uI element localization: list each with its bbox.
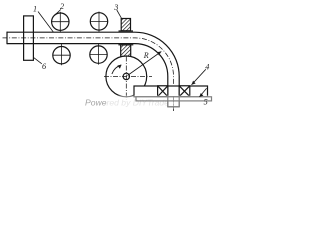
leader for label 5: [199, 88, 206, 97]
leader for label 6: [33, 57, 42, 64]
leader for label 2: [54, 10, 61, 16]
tube 1 horizontal section top edge: [7, 32, 179, 107]
svg-text:Powered by DIYTrade: Powered by DIYTrade: [85, 97, 169, 107]
svg-text:4: 4: [205, 62, 209, 71]
tube bottom end cap: [167, 106, 179, 108]
roller bottom-left circle: [53, 44, 71, 66]
roller 2 top-left circle: [51, 12, 69, 32]
leader for label 4: [192, 69, 206, 85]
tube 1 horizontal section bottom edge: [7, 44, 168, 107]
tube left end cap: [6, 32, 8, 45]
vertical tube through plate redraw: [167, 85, 179, 111]
svg-text:6: 6: [42, 62, 47, 71]
watermark white wash band: [96, 95, 215, 109]
wheel hub small circle: [123, 73, 129, 79]
svg-text:1: 1: [33, 5, 37, 14]
clamp die 3 bottom hatched block: [118, 45, 133, 57]
roller bottom-right circle: [90, 44, 108, 65]
clamp guide 6 (vertical rectangle): [24, 16, 34, 60]
svg-text:3: 3: [113, 3, 118, 12]
svg-text:5: 5: [204, 97, 208, 106]
bending wheel: [106, 56, 147, 97]
wheel horizontal centerline: [104, 75, 152, 77]
svg-text:2: 2: [60, 2, 64, 11]
carriage block (clamp slide): [134, 86, 208, 97]
wheel vertical centerline: [125, 57, 127, 100]
clamp die 4 left x-box: [158, 86, 168, 97]
radius R leader line: [128, 52, 162, 76]
leader for label 1: [38, 12, 54, 33]
base plate 5: [136, 97, 212, 101]
roller top-right circle: [90, 12, 108, 33]
leader for label 3: [117, 10, 122, 19]
clamp die 3 top hatched block: [119, 19, 134, 32]
clamp die 4 right x-box: [179, 86, 190, 97]
wheel rotation arrow: [112, 65, 122, 74]
svg-text:R: R: [143, 51, 149, 60]
tube centerline (dash-dot): [3, 38, 174, 111]
